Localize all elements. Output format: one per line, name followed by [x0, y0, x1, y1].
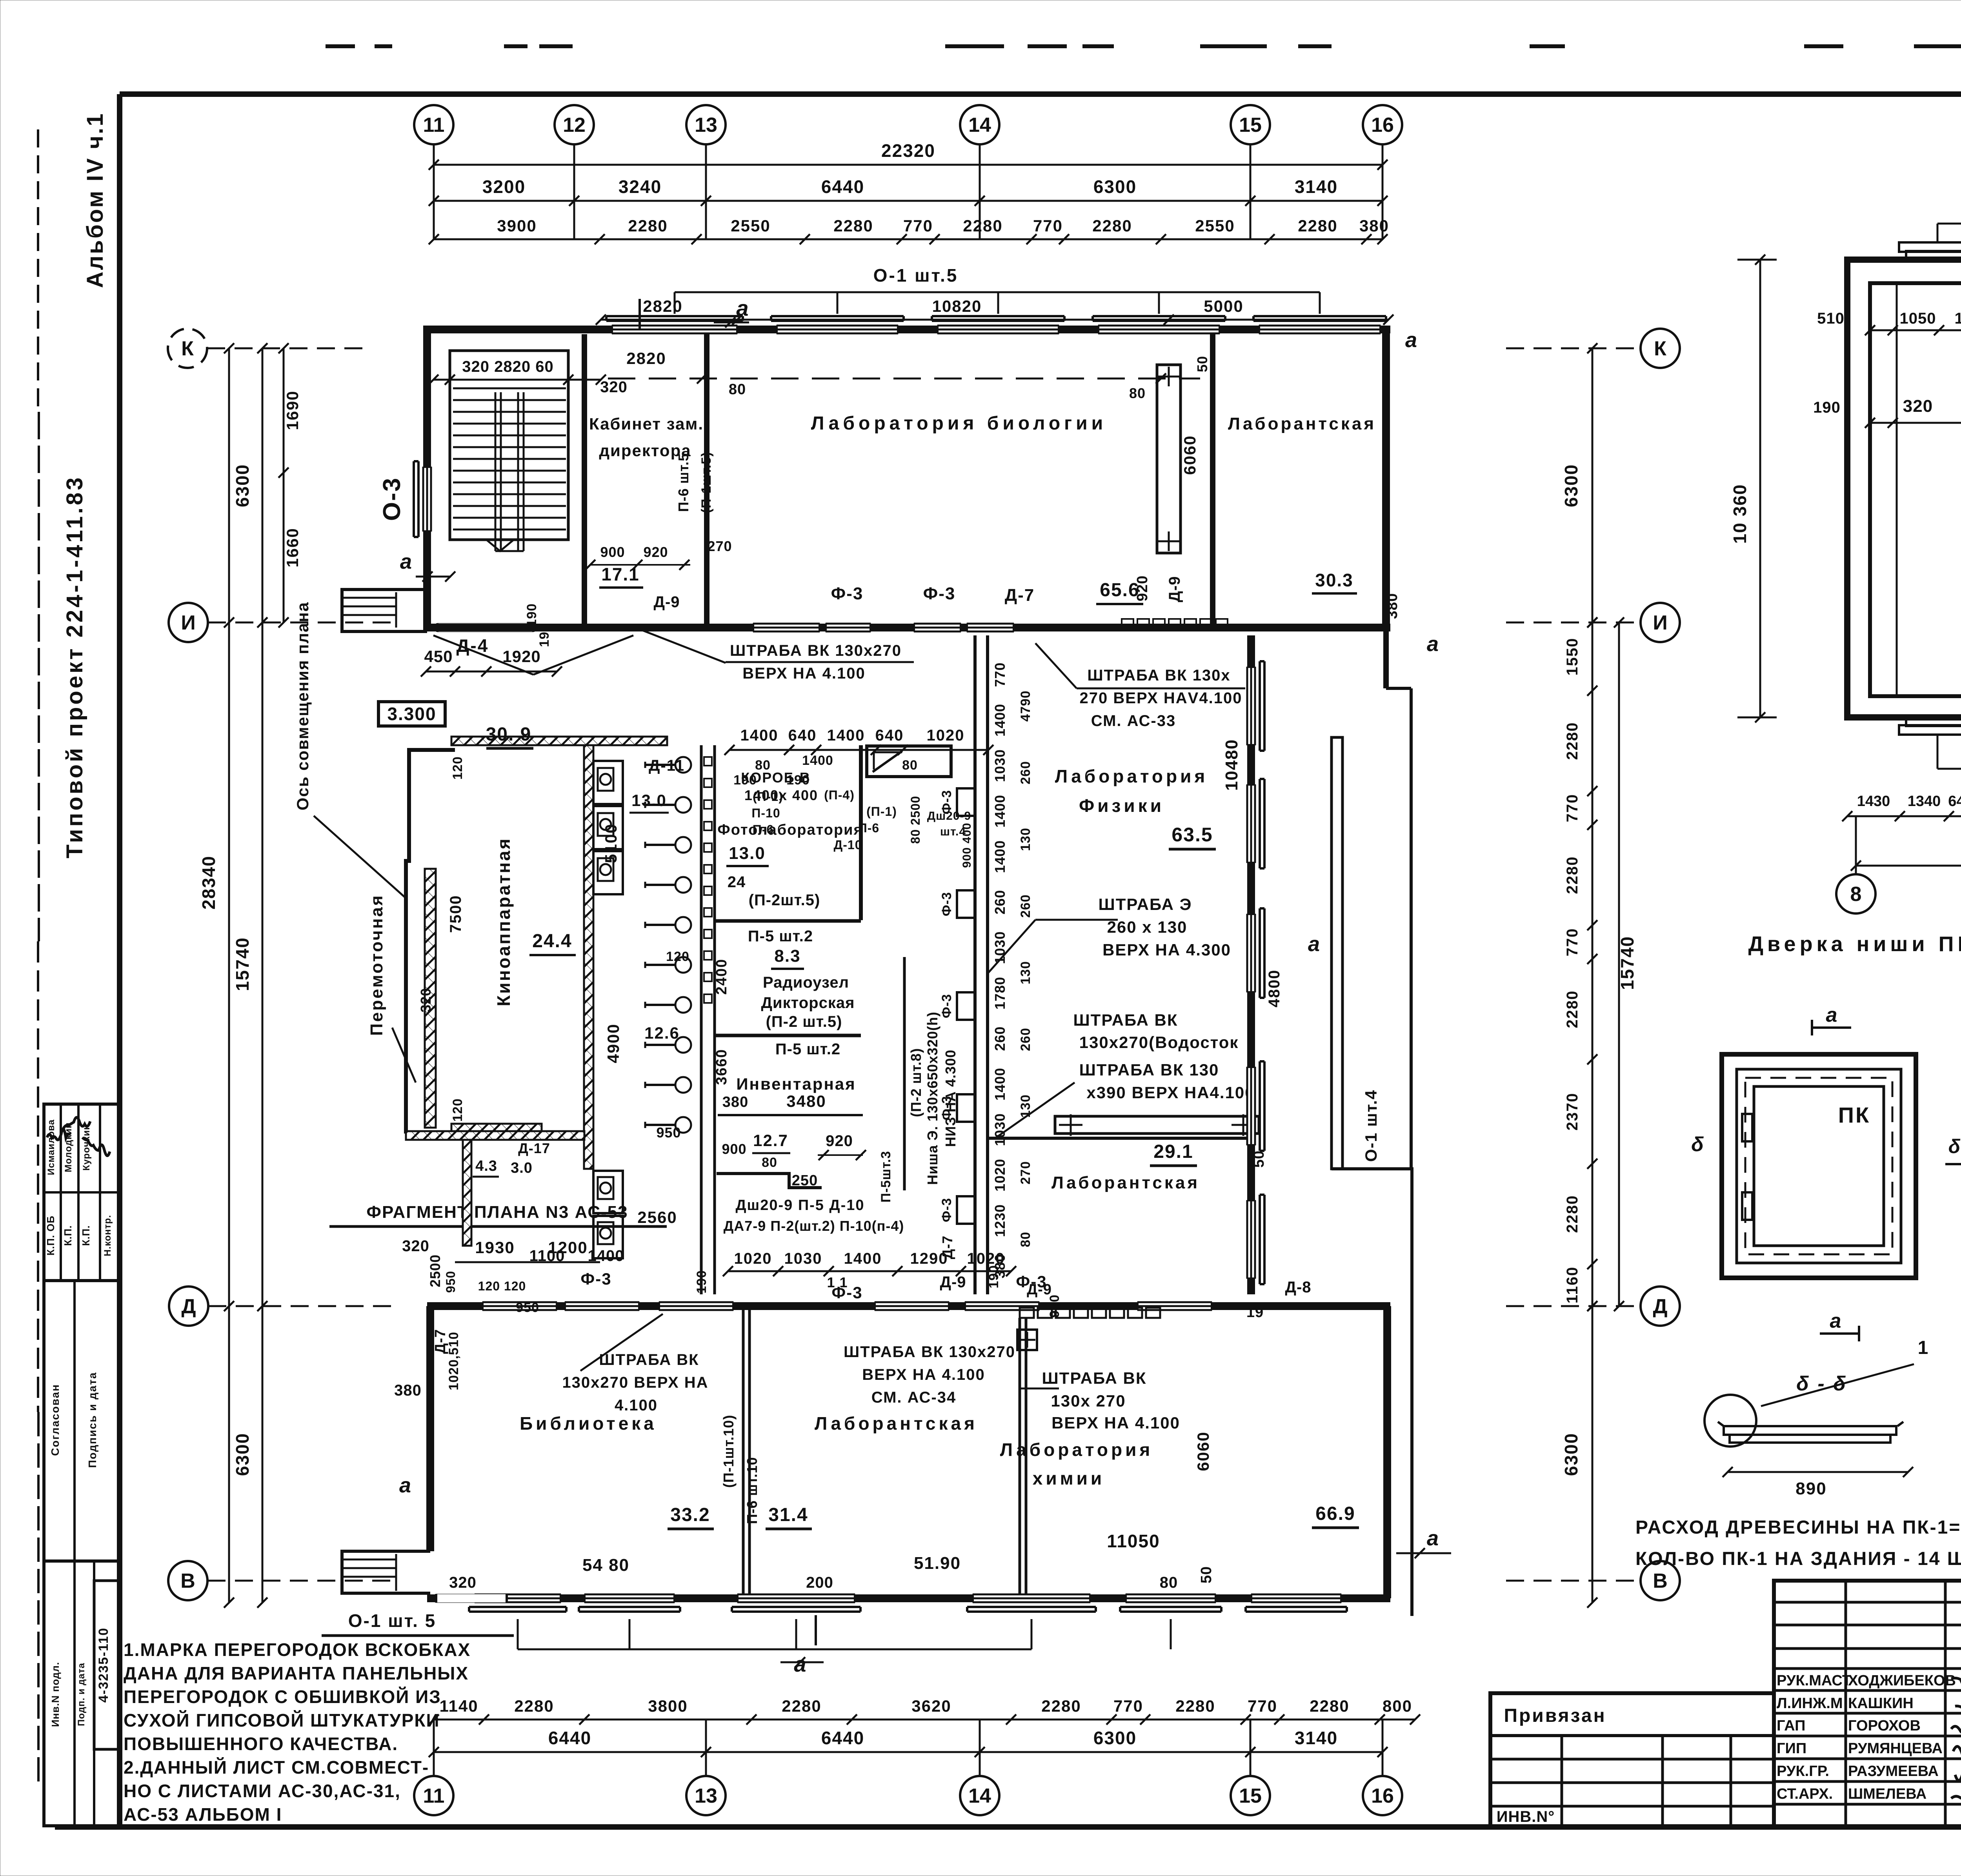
svg-text:4.3: 4.3	[475, 1158, 497, 1174]
svg-text:О-1 шт.5: О-1 шт.5	[873, 265, 959, 286]
svg-text:24: 24	[728, 873, 746, 891]
left axis circle K	[168, 329, 207, 368]
svg-text:29.1: 29.1	[1153, 1141, 1193, 1162]
svg-text:Д-9: Д-9	[653, 593, 680, 611]
sheet frame left border	[117, 94, 122, 1827]
svg-text:10820: 10820	[932, 297, 982, 315]
svg-text:Лаборатория: Лаборатория	[1000, 1439, 1153, 1460]
svg-text:33.2: 33.2	[670, 1505, 710, 1525]
svg-text:3140: 3140	[1295, 1728, 1338, 1748]
svg-text:890: 890	[1795, 1479, 1826, 1498]
svg-text:3.0: 3.0	[511, 1160, 533, 1176]
svg-text:Д: Д	[181, 1295, 196, 1318]
top axis circles 11-16	[414, 105, 453, 144]
svg-text:ШМЕЛЕВА: ШМЕЛЕВА	[1848, 1786, 1926, 1802]
svg-text:2280: 2280	[628, 217, 668, 235]
svg-text:Лаборантская: Лаборантская	[1051, 1173, 1200, 1192]
svg-text:П-5шт.3: П-5шт.3	[879, 1151, 893, 1203]
svg-text:Д-7: Д-7	[939, 1236, 955, 1259]
svg-text:12: 12	[563, 114, 586, 136]
svg-text:6300: 6300	[232, 1433, 253, 1476]
малые помещения слева	[406, 1131, 584, 1140]
В axis bottom wall	[427, 1594, 1390, 1602]
фонарь dim chain top	[1870, 329, 1961, 331]
svg-text:1050: 1050	[1900, 310, 1936, 327]
svg-text:1660: 1660	[283, 528, 302, 567]
svg-text:В: В	[180, 1570, 195, 1592]
stair inner box	[450, 351, 568, 540]
svg-text:190: 190	[986, 1265, 1001, 1288]
svg-text:4.100: 4.100	[615, 1397, 658, 1414]
svg-text:СМ. АС-33: СМ. АС-33	[1091, 712, 1176, 730]
svg-text:Библиотека: Библиотека	[520, 1413, 657, 1434]
svg-text:П-5 шт.2: П-5 шт.2	[775, 1041, 840, 1058]
svg-text:(П-2 шт.8): (П-2 шт.8)	[908, 1048, 924, 1117]
svg-text:65.6: 65.6	[1100, 580, 1139, 600]
svg-text:2820: 2820	[626, 349, 666, 368]
section line а bottom	[815, 1615, 817, 1645]
right axis circle Д	[1641, 1286, 1680, 1326]
svg-text:4-3235-110: 4-3235-110	[96, 1627, 111, 1703]
svg-text:28340: 28340	[198, 855, 219, 910]
svg-text:1930: 1930	[475, 1238, 515, 1257]
top dimension chain: detail	[434, 238, 1383, 240]
svg-text:2280: 2280	[1564, 856, 1581, 894]
svg-text:6440: 6440	[821, 177, 864, 197]
right axis circle И	[1641, 603, 1680, 642]
svg-text:6440: 6440	[821, 1728, 864, 1748]
svg-text:320: 320	[600, 378, 628, 396]
right dimension chain of plan	[1592, 348, 1594, 622]
svg-text:320 2820 60: 320 2820 60	[462, 358, 553, 375]
svg-text:12.6: 12.6	[644, 1024, 680, 1042]
svg-text:Ф-3: Ф-3	[939, 1198, 954, 1222]
киноаппаратная walls hatched	[451, 737, 667, 745]
svg-text:2550: 2550	[1195, 217, 1235, 235]
porch entrance lower left of stair	[342, 590, 427, 631]
staff table	[1774, 1581, 1961, 1827]
left sub chain 1690 1660	[283, 348, 285, 622]
right axis circle В	[1641, 1561, 1680, 1600]
svg-text:1400х 400: 1400х 400	[744, 787, 818, 803]
svg-text:80: 80	[762, 1155, 777, 1170]
svg-text:1400: 1400	[844, 1250, 882, 1267]
svg-text:50: 50	[1194, 356, 1210, 372]
svg-text:450: 450	[424, 647, 453, 666]
right axis circle К	[1641, 329, 1680, 368]
svg-text:Лаборантская: Лаборантская	[815, 1413, 978, 1434]
svg-text:80: 80	[902, 758, 918, 773]
svg-text:РУМЯНЦЕВА: РУМЯНЦЕВА	[1848, 1740, 1943, 1757]
left margin stamp table C	[44, 1561, 120, 1826]
svg-text:1200: 1200	[548, 1238, 588, 1257]
svg-text:ГАП: ГАП	[1777, 1718, 1805, 1734]
svg-text:320: 320	[418, 988, 434, 1012]
svg-text:Инв.N подл.: Инв.N подл.	[49, 1662, 61, 1727]
svg-text:2280: 2280	[833, 217, 873, 235]
svg-text:1020: 1020	[992, 1159, 1008, 1192]
bottom axis circles	[414, 1776, 453, 1815]
svg-text:640: 640	[788, 727, 817, 744]
svg-text:ГОРОХОВ: ГОРОХОВ	[1848, 1718, 1921, 1734]
svg-text:РУК.МАСТ: РУК.МАСТ	[1777, 1672, 1851, 1689]
svg-text:950: 950	[516, 1300, 539, 1315]
svg-text:δ: δ	[1948, 1135, 1961, 1157]
svg-text:10 360: 10 360	[1730, 484, 1750, 544]
svg-text:15740: 15740	[1617, 936, 1637, 990]
internal dim line К band	[608, 378, 1200, 380]
top outer wall К axis	[427, 326, 1390, 333]
left dimension chain 6300/15740/6300	[262, 348, 264, 1603]
left axis circle В	[168, 1561, 207, 1600]
И axis corridor wall	[427, 624, 1390, 631]
svg-text:270: 270	[1018, 1161, 1033, 1185]
svg-text:80 2500: 80 2500	[908, 796, 922, 844]
svg-text:770: 770	[1564, 794, 1581, 822]
svg-text:770: 770	[903, 217, 933, 235]
Д wall window marks	[482, 1302, 557, 1310]
right chain 15740 label	[1618, 622, 1620, 1306]
svg-text:Л.ИНЖ.М: Л.ИНЖ.М	[1777, 1695, 1843, 1712]
svg-text:В: В	[1653, 1570, 1668, 1592]
dim 890	[1728, 1471, 1908, 1473]
svg-text:6060: 6060	[1181, 435, 1199, 475]
svg-text:(П-2 шт.5): (П-2 шт.5)	[766, 1013, 842, 1030]
door Д-4 opening	[433, 635, 533, 675]
svg-text:КОРОБ В: КОРОБ В	[741, 770, 810, 786]
фонарь outer wall rect	[1847, 260, 1961, 717]
svg-text:Привязан: Привязан	[1504, 1705, 1606, 1726]
svg-text:х390 ВЕРХ НА4.100: х390 ВЕРХ НА4.100	[1086, 1083, 1255, 1102]
дверка hinges	[1742, 1114, 1752, 1141]
right outer wall middle band 15 axis	[1247, 635, 1255, 1294]
svg-text:320: 320	[449, 1574, 477, 1591]
svg-text:К: К	[1654, 337, 1666, 360]
svg-text:16: 16	[1371, 1785, 1394, 1807]
svg-text:1400: 1400	[802, 753, 833, 768]
svg-text:11050: 11050	[1107, 1531, 1160, 1551]
scan artifact dashes top	[326, 44, 355, 48]
svg-text:Подп. и дата: Подп. и дата	[76, 1663, 87, 1726]
svg-text:Ось совмещения плана: Ось совмещения плана	[293, 602, 312, 811]
left dimension chain 28340	[228, 348, 230, 1603]
biology riser shaft	[1157, 365, 1181, 553]
corridor wall door/window marks	[753, 623, 820, 632]
svg-text:900: 900	[600, 544, 625, 560]
svg-text:1400: 1400	[992, 795, 1008, 828]
svg-text:2.ДАННЫЙ ЛИСТ СМ.СОВМЕСТ-: 2.ДАННЫЙ ЛИСТ СМ.СОВМЕСТ-	[124, 1757, 429, 1778]
svg-text:КОЛ-ВО ПК-1 НА ЗДАНИЯ - 14: КОЛ-ВО ПК-1 НА ЗДАНИЯ - 14 ШТ.	[1635, 1548, 1961, 1569]
svg-text:2280: 2280	[1564, 990, 1581, 1028]
партиция фото/радиоузел	[715, 919, 861, 923]
svg-text:13.0: 13.0	[729, 844, 766, 863]
фонарь vert line 8 axis	[1896, 283, 1898, 696]
3.300 box	[378, 702, 445, 726]
svg-text:а: а	[1826, 1004, 1839, 1026]
svg-text:3140: 3140	[1295, 177, 1338, 197]
svg-text:1400: 1400	[992, 840, 1008, 873]
svg-text:200: 200	[806, 1574, 833, 1591]
svg-text:Н.контр.: Н.контр.	[102, 1215, 113, 1256]
svg-text:Д-17: Д-17	[518, 1140, 550, 1156]
svg-text:О-1 шт.4: О-1 шт.4	[1362, 1090, 1380, 1162]
И wall шкаф marks biology east	[1122, 619, 1133, 627]
svg-text:Ф-3: Ф-3	[923, 584, 956, 603]
svg-text:1400: 1400	[827, 727, 865, 744]
stair treads	[453, 388, 566, 389]
partition библиотека/лаборантская	[742, 1310, 745, 1598]
svg-text:19: 19	[1246, 1304, 1264, 1321]
В wall windows	[475, 1594, 561, 1603]
svg-text:(П-4): (П-4)	[824, 788, 855, 802]
top dimension chain: axis spans	[434, 200, 1383, 202]
фонарь dim chain 11490	[1870, 422, 1961, 424]
svg-text:260 х 130: 260 х 130	[1107, 918, 1188, 936]
svg-text:2400: 2400	[713, 959, 730, 995]
svg-text:4800: 4800	[1266, 970, 1283, 1008]
hooks column	[675, 757, 691, 773]
svg-text:1780: 1780	[992, 977, 1008, 1010]
left axis circle И	[169, 603, 208, 642]
svg-text:1690: 1690	[283, 390, 302, 430]
дверка план: outer square	[1722, 1054, 1916, 1278]
sheet frame top border	[120, 91, 1961, 97]
фотолаборатория partition	[859, 745, 863, 920]
svg-text:а: а	[1427, 1527, 1440, 1550]
svg-text:ПЕРЕГОРОДОК С ОБШИВКОЙ ИЗ: ПЕРЕГОРОДОК С ОБШИВКОЙ ИЗ	[124, 1687, 441, 1707]
svg-text:510: 510	[1817, 310, 1845, 327]
δ-δ section bar	[1724, 1426, 1896, 1435]
top dimension chain: overall 22320	[434, 164, 1383, 166]
svg-text:1020: 1020	[927, 727, 965, 744]
hook strip wall 13 axis	[700, 745, 703, 1294]
svg-text:250: 250	[792, 1172, 818, 1189]
ниша колонна 14 axis corridor wall	[973, 635, 977, 1294]
svg-text:15: 15	[1239, 114, 1262, 136]
svg-text:РУК.ГР.: РУК.ГР.	[1777, 1763, 1829, 1780]
svg-text:Ф-3: Ф-3	[939, 790, 954, 814]
svg-text:Дикторская: Дикторская	[761, 994, 855, 1012]
svg-text:2550: 2550	[731, 217, 770, 235]
svg-text:3620: 3620	[911, 1697, 951, 1715]
partition 13 axis (biology left wall)	[704, 334, 709, 628]
svg-text:а: а	[1830, 1310, 1843, 1332]
svg-text:260: 260	[1018, 894, 1033, 918]
фонарь left dim 10 360	[1759, 260, 1761, 717]
axis circle 8	[1836, 874, 1876, 913]
svg-text:8.3: 8.3	[774, 946, 800, 966]
svg-text:РАСХОД ДРЕВЕСИНЫ НА ПК-1= 0.: РАСХОД ДРЕВЕСИНЫ НА ПК-1= 0.014 М³	[1635, 1517, 1961, 1538]
svg-text:ФРАГМЕНТ ПЛАНА N3 АС-53: ФРАГМЕНТ ПЛАНА N3 АС-53	[366, 1203, 628, 1222]
bottom band outer left wall	[426, 1306, 434, 1551]
svg-text:4790: 4790	[1018, 690, 1033, 722]
svg-text:11: 11	[423, 1785, 445, 1807]
svg-text:800: 800	[1383, 1697, 1412, 1715]
svg-text:320: 320	[1903, 397, 1933, 416]
svg-text:ХОДЖИБЕКОВ: ХОДЖИБЕКОВ	[1848, 1672, 1956, 1689]
niches on 14 wall	[957, 788, 975, 816]
фонарь bottom chain 12000	[1856, 865, 1961, 867]
svg-text:О-3: О-3	[378, 477, 406, 521]
svg-text:2280: 2280	[1041, 1697, 1081, 1715]
svg-text:950: 950	[444, 1271, 458, 1293]
svg-text:1470: 1470	[1955, 310, 1961, 327]
svg-text:950: 950	[656, 1125, 681, 1141]
partition 12 axis (cabinet left wall)	[582, 334, 587, 628]
svg-text:НО С ЛИСТАМИ АС-30,АС-31,: НО С ЛИСТАМИ АС-30,АС-31,	[124, 1781, 401, 1801]
svg-text:380: 380	[1359, 217, 1389, 235]
svg-text:Лаборатория: Лаборатория	[1055, 766, 1208, 786]
шкаф marks on Д wall	[1020, 1308, 1034, 1318]
svg-text:КАШКИН: КАШКИН	[1848, 1695, 1914, 1712]
svg-text:5000: 5000	[1204, 297, 1243, 315]
svg-text:120: 120	[450, 756, 465, 780]
svg-text:К.П.: К.П.	[62, 1225, 74, 1246]
svg-text:а: а	[736, 296, 750, 320]
svg-text:Д-8: Д-8	[1285, 1279, 1311, 1296]
svg-text:П-5 шт.2: П-5 шт.2	[748, 928, 813, 945]
svg-text:2280: 2280	[1175, 1697, 1215, 1715]
svg-text:1: 1	[1918, 1337, 1930, 1358]
перемоточная outer wall	[406, 750, 455, 1134]
перегородка П-2 шт.8 вертикальная	[903, 957, 906, 1190]
svg-text:РАЗУМЕЕВА: РАЗУМЕЕВА	[1848, 1763, 1939, 1780]
svg-text:30. 9: 30. 9	[486, 724, 532, 745]
top wall windows О-1	[612, 325, 737, 334]
svg-text:51.90: 51.90	[914, 1554, 961, 1573]
svg-text:920: 920	[826, 1132, 853, 1150]
svg-text:2500: 2500	[427, 1254, 443, 1287]
svg-text:2280: 2280	[782, 1697, 821, 1715]
svg-text:3900: 3900	[497, 217, 537, 235]
svg-text:ПОВЫШЕННОГО КАЧЕСТВА.: ПОВЫШЕННОГО КАЧЕСТВА.	[124, 1734, 398, 1754]
svg-text:Д-9: Д-9	[1166, 576, 1183, 602]
svg-text:Ф-3: Ф-3	[939, 994, 954, 1018]
svg-text:380: 380	[722, 1094, 748, 1110]
svg-text:900: 900	[722, 1141, 746, 1157]
фонарь top window leaders	[1937, 224, 1939, 242]
stair block outer walls	[423, 326, 431, 606]
svg-text:И: И	[181, 611, 195, 634]
sheet frame bottom border	[55, 1824, 1961, 1830]
svg-text:а: а	[1427, 632, 1440, 656]
staff signatures	[1951, 1676, 1961, 1686]
svg-text:80: 80	[1160, 1574, 1178, 1591]
svg-text:П-10: П-10	[751, 806, 780, 820]
svg-text:2280: 2280	[1298, 217, 1337, 235]
svg-text:1340: 1340	[1908, 793, 1941, 810]
window leaders to О-1 label	[517, 1619, 519, 1649]
svg-text:2370: 2370	[1564, 1093, 1581, 1131]
svg-text:54 80: 54 80	[582, 1556, 629, 1575]
svg-text:1030: 1030	[992, 749, 1008, 782]
svg-text:химии: химии	[1033, 1468, 1105, 1488]
svg-text:5100: 5100	[602, 823, 620, 863]
svg-text:2280: 2280	[1310, 1697, 1349, 1715]
svg-text:3.300: 3.300	[387, 704, 436, 724]
stair arrow	[486, 540, 514, 551]
svg-text:Подпись и дата: Подпись и дата	[86, 1372, 98, 1468]
svg-text:(П-1шт.10): (П-1шт.10)	[720, 1415, 737, 1488]
svg-text:4900: 4900	[604, 1023, 622, 1063]
svg-text:ВЕРХ НА 4.100: ВЕРХ НА 4.100	[1051, 1414, 1180, 1432]
svg-text:Ниша Э. 130х650х320(h): Ниша Э. 130х650х320(h)	[924, 1012, 940, 1185]
svg-text:ШТРАБА ВК 130: ШТРАБА ВК 130	[1079, 1061, 1219, 1079]
svg-text:640: 640	[1948, 793, 1961, 810]
svg-text:Курочкин: Курочкин	[81, 1124, 92, 1171]
svg-text:15: 15	[1239, 1785, 1262, 1807]
svg-text:ШТРАБА ВК 130х270: ШТРАБА ВК 130х270	[730, 642, 902, 659]
svg-text:ШТРАБА ВК 130х270: ШТРАБА ВК 130х270	[844, 1343, 1015, 1361]
svg-text:Д-10: Д-10	[833, 838, 862, 852]
svg-text:190: 190	[524, 603, 539, 627]
svg-text:2280: 2280	[1564, 1195, 1581, 1233]
wing wall right	[1383, 631, 1389, 688]
svg-text:31.4: 31.4	[768, 1505, 808, 1525]
svg-text:6300: 6300	[1093, 177, 1137, 197]
svg-text:1430: 1430	[1857, 793, 1890, 810]
svg-text:1030: 1030	[992, 1113, 1008, 1146]
svg-text:К.П. ОБ: К.П. ОБ	[45, 1215, 56, 1256]
left axis circle Д	[169, 1286, 208, 1326]
svg-text:(П-1шт.5): (П-1шт.5)	[699, 452, 714, 513]
svg-text:2280: 2280	[514, 1697, 554, 1715]
svg-text:ШТРАБА ВК 130х: ШТРАБА ВК 130х	[1087, 667, 1230, 684]
svg-text:ДАНА ДЛЯ ВАРИАНТА ПАНЕЛЬНЫХ: ДАНА ДЛЯ ВАРИАНТА ПАНЕЛЬНЫХ	[124, 1663, 469, 1683]
svg-text:АС-53 АЛЬБОМ I: АС-53 АЛЬБОМ I	[124, 1804, 282, 1825]
bottom dimension chain axes	[434, 1751, 1383, 1753]
фонарь inner wall rect	[1870, 283, 1961, 696]
svg-text:66.9: 66.9	[1315, 1503, 1355, 1524]
svg-text:ГИП: ГИП	[1777, 1740, 1806, 1757]
svg-text:80: 80	[1018, 1232, 1033, 1247]
svg-text:(П-1): (П-1)	[866, 804, 897, 819]
svg-text:11: 11	[423, 114, 445, 136]
svg-text:СМ. АС-34: СМ. АС-34	[871, 1389, 957, 1406]
svg-text:50: 50	[1198, 1566, 1215, 1583]
porch bottom left	[342, 1551, 430, 1593]
section line а top	[639, 299, 641, 329]
middle band right windows	[1247, 667, 1255, 745]
svg-text:Ф-3: Ф-3	[831, 584, 864, 603]
svg-text:Типовой проект 224-1-411.: Типовой проект 224-1-411.83	[62, 475, 87, 859]
svg-text:а: а	[399, 1474, 413, 1497]
svg-text:а: а	[400, 550, 412, 573]
svg-text:6300: 6300	[1093, 1728, 1137, 1748]
svg-text:6300: 6300	[1561, 464, 1581, 507]
stair stringers	[495, 392, 497, 551]
svg-text:920: 920	[643, 544, 668, 560]
svg-text:И: И	[1653, 611, 1667, 634]
δ-δ detail circle	[1705, 1395, 1756, 1447]
ступенчатая перегородка под 12.7	[717, 1174, 822, 1188]
svg-text:ДА7-9 П-2(шт.2) П-10(п-4): ДА7-9 П-2(шт.2) П-10(п-4)	[724, 1218, 904, 1234]
фонарь bottom windows	[1906, 717, 1961, 726]
svg-text:80: 80	[1129, 385, 1146, 401]
svg-text:Д: Д	[1653, 1295, 1667, 1318]
svg-text:320: 320	[402, 1237, 429, 1255]
svg-text:ШТРАБА Э: ШТРАБА Э	[1099, 895, 1192, 913]
wc cells	[593, 761, 623, 804]
svg-text:190: 190	[694, 1270, 709, 1294]
svg-text:Ф-3: Ф-3	[1016, 1272, 1047, 1291]
right outer wall top band 16 axis	[1382, 329, 1390, 631]
svg-text:1 1: 1 1	[827, 1274, 848, 1290]
svg-text:Кабинет зам.: Кабинет зам.	[589, 415, 704, 433]
svg-text:К.П.: К.П.	[80, 1225, 92, 1246]
svg-text:770: 770	[1113, 1697, 1143, 1715]
door gap in И wall	[437, 623, 533, 632]
